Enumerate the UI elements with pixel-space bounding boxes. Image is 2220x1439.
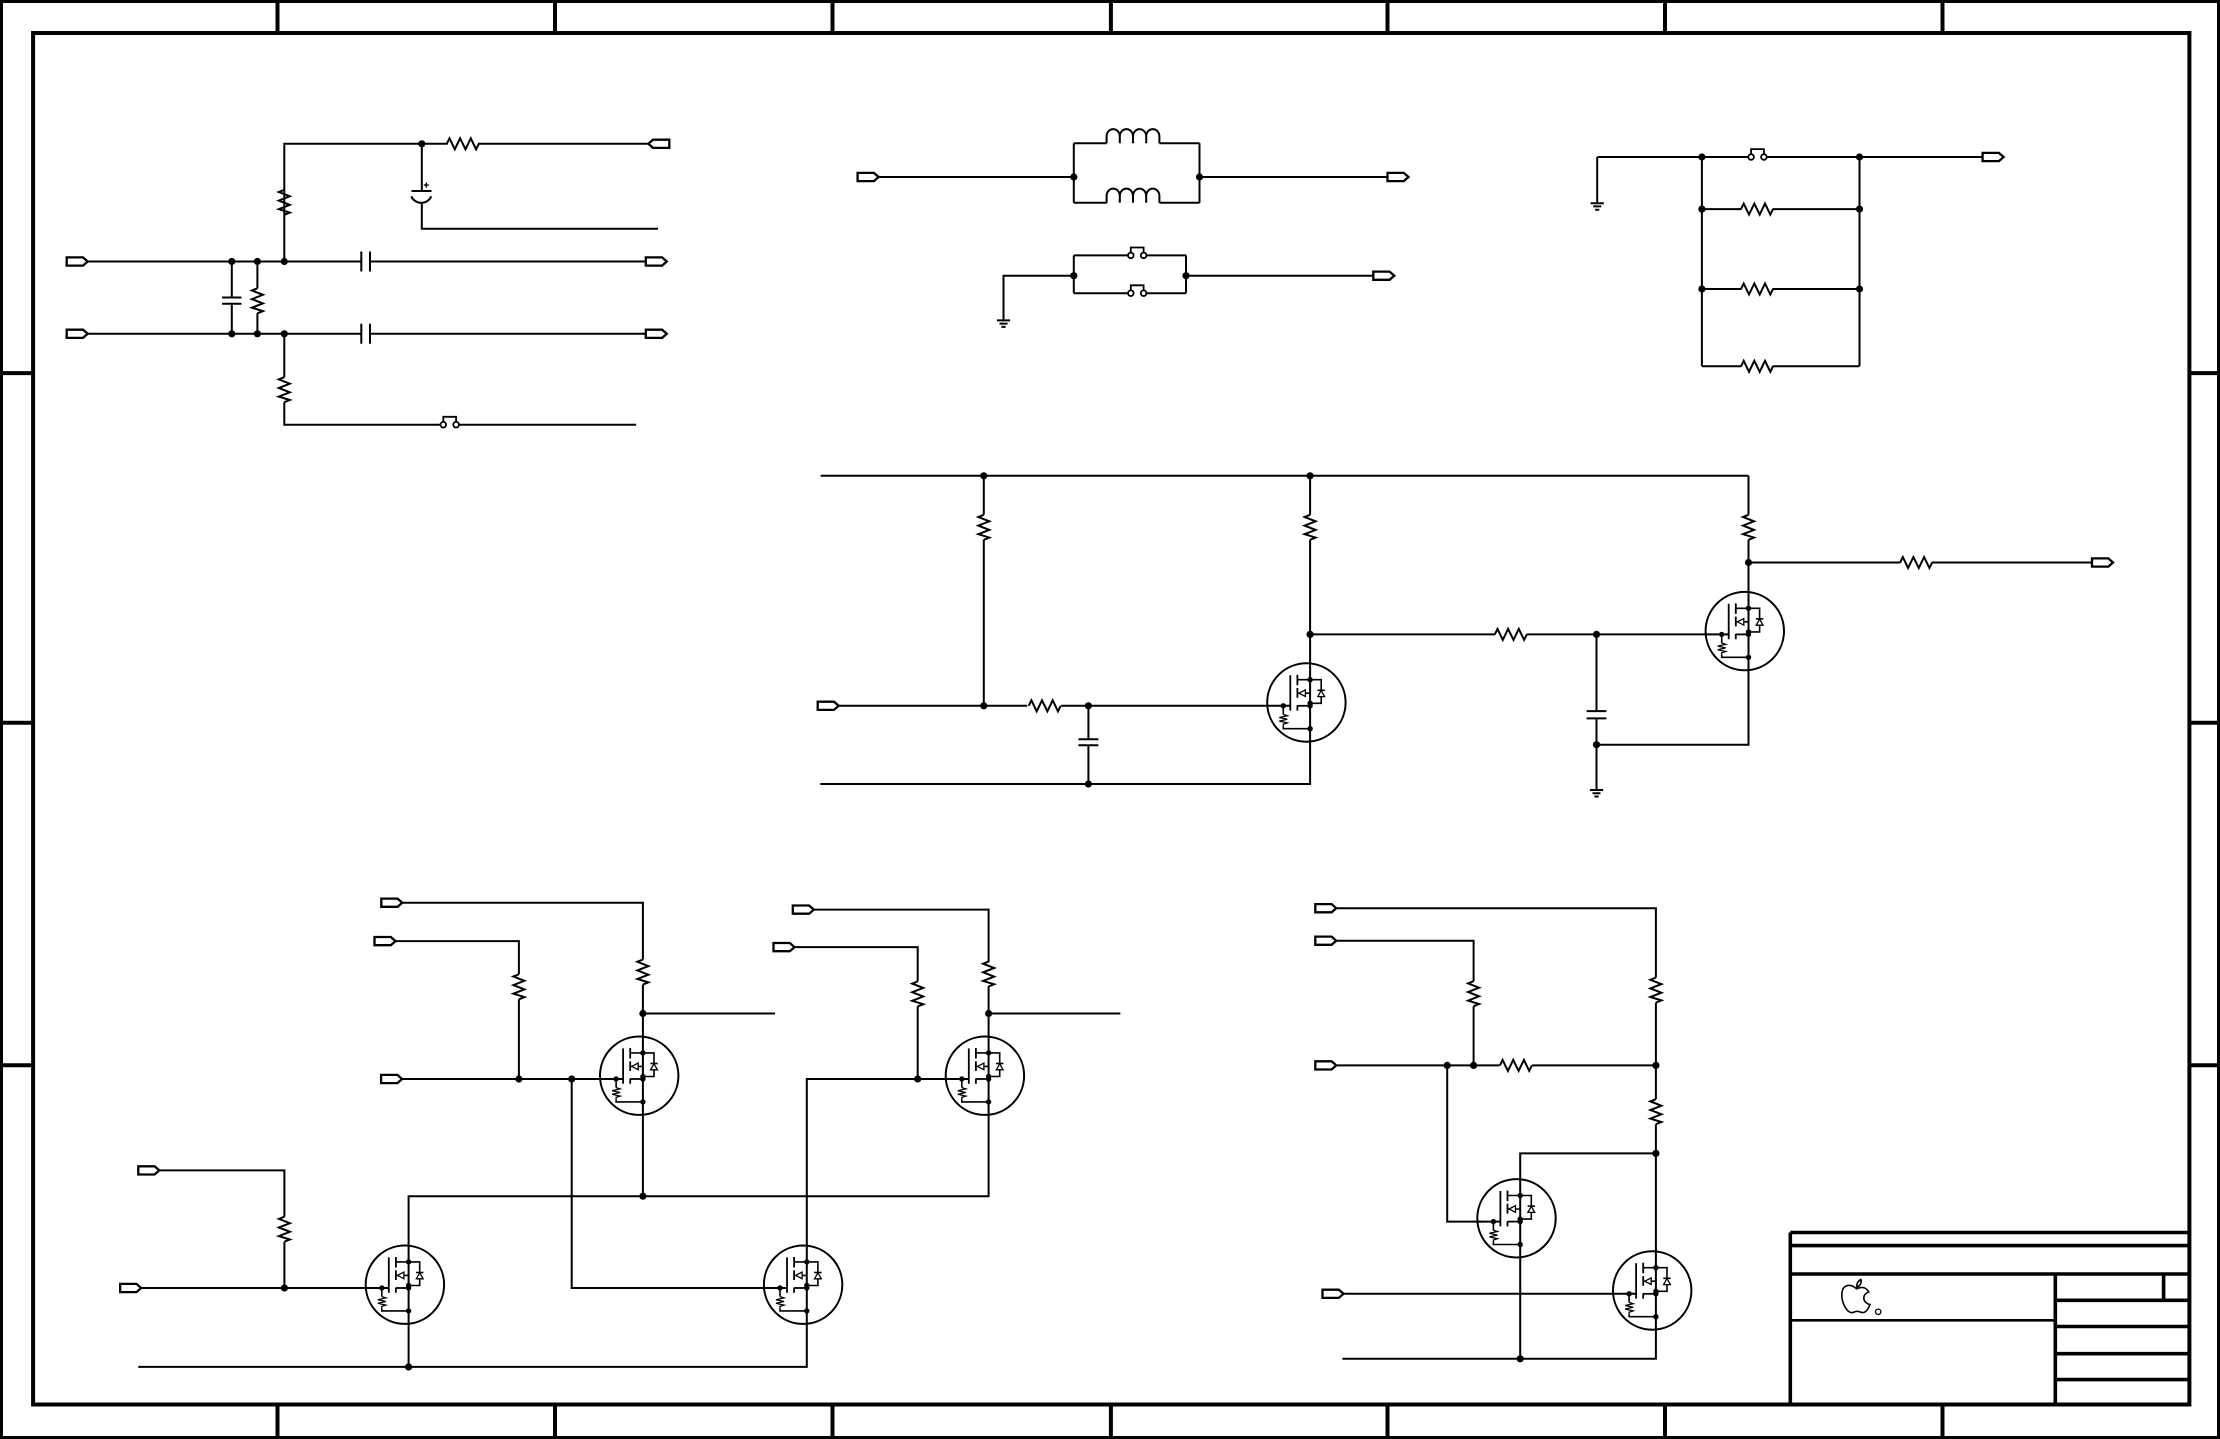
- connector OUT3: [646, 330, 667, 338]
- node C6 bottom: [1593, 741, 1600, 748]
- wire Q8 drain vertical: [1655, 1153, 1657, 1251]
- wire IN10 to R18: [159, 1170, 284, 1288]
- wire bottom-right rail: [1342, 1330, 1656, 1359]
- fuse F3: [1128, 285, 1146, 296]
- resistor R5: [1702, 208, 1860, 210]
- node line1 j2: [254, 258, 261, 265]
- wire C6 to Q2 source: [1597, 670, 1749, 745]
- wire Q3 source: [642, 1115, 644, 1196]
- connector IN4: [818, 702, 839, 710]
- node R21 right: [1652, 1062, 1659, 1069]
- wire C6 to ground: [1596, 745, 1598, 790]
- connector IN8 (Q5 drain supply): [793, 906, 814, 914]
- connector IN3 (top middle): [858, 173, 879, 181]
- wire gate line Q1: [839, 705, 1268, 707]
- wire Q4 source: [408, 1324, 410, 1367]
- node line2 j3: [281, 330, 288, 337]
- fuse F2: [1128, 248, 1146, 259]
- node Q4 gate j1: [281, 1284, 288, 1291]
- wire ground stub top right: [1596, 157, 1598, 203]
- connector OUT5: [1373, 272, 1394, 280]
- wire IN13 to R20: [1336, 941, 1473, 1066]
- connector IN11 (Q4 gate): [120, 1284, 141, 1292]
- ground G2: [1591, 203, 1604, 210]
- wire Q7 gate feed: [1447, 1065, 1481, 1221]
- wire middle top rail: [821, 475, 1749, 477]
- resistor R3: [256, 262, 258, 334]
- transistor Q7: [1477, 1179, 1555, 1257]
- capacitor C1 (polarized): [411, 144, 658, 229]
- ground G1: [997, 320, 1010, 327]
- wire left bus: [1701, 157, 1703, 366]
- wire to OUT4: [1200, 176, 1388, 178]
- connector OUT1 (left-pointing): [648, 140, 669, 148]
- capacitor C6: [1587, 634, 1607, 744]
- fuse F1: [441, 417, 459, 428]
- node line2 j2: [254, 330, 261, 337]
- wire Q3 gate line: [402, 1078, 600, 1080]
- node line1 j1: [228, 258, 235, 265]
- resistor R8 (pull-up 1): [983, 476, 985, 706]
- connector OUT2: [646, 257, 667, 265]
- node bus l1: [1698, 206, 1705, 213]
- capacitor C5: [1078, 706, 1098, 784]
- node bus tr: [1856, 153, 1863, 160]
- wire Q7 gate node line: [1336, 1064, 1656, 1066]
- wire drain link to Q7: [1520, 1153, 1656, 1179]
- node Q5 drain: [985, 1010, 992, 1017]
- node C6 top: [1593, 631, 1600, 638]
- wire to inductor box: [879, 176, 1074, 178]
- wire Q2 drain to OUT7: [1749, 562, 2093, 564]
- capacitor C3: [361, 324, 370, 344]
- node top-left rail junction: [418, 140, 425, 147]
- node bus l2: [1698, 285, 1705, 292]
- node Q3 gate j2: [568, 1075, 575, 1082]
- inductor L2: [1107, 189, 1160, 203]
- title block: [1790, 1233, 2189, 1405]
- wire Q3 drain stub: [643, 1013, 775, 1015]
- node bottom rail Q4 source: [405, 1363, 412, 1370]
- connector IN1: [67, 257, 88, 265]
- node R21 mid: [1470, 1062, 1477, 1069]
- wire drain node line: [1310, 633, 1706, 635]
- node rail v2: [1307, 472, 1314, 479]
- node bus r2: [1856, 285, 1863, 292]
- node rail v1: [980, 472, 987, 479]
- wire line2: [88, 333, 646, 335]
- node fuse box right: [1182, 272, 1189, 279]
- connector IN12 (Q8 drain supply): [1315, 904, 1336, 912]
- wire Q1 drain vertical: [1309, 634, 1311, 663]
- node gate line j1: [980, 702, 987, 709]
- connector IN6 (Q3 gate pull): [375, 937, 396, 945]
- wire IN6 to R15: [396, 941, 519, 1079]
- node shared line Q3 source: [639, 1193, 646, 1200]
- resistor R2: [279, 190, 290, 215]
- wire shared source line: [409, 1115, 989, 1246]
- resistor R19: [1650, 978, 1661, 1003]
- node line1 j3: [281, 258, 288, 265]
- node bottom rail cap: [1085, 780, 1092, 787]
- connector IN2: [67, 330, 88, 338]
- node R21 left: [1444, 1062, 1451, 1069]
- node inductor right: [1196, 173, 1203, 180]
- wire Q6 drain to Q5 gate: [807, 1079, 946, 1246]
- resistor R18: [279, 1217, 290, 1242]
- wire top-right rail: [1597, 156, 1982, 158]
- resistor R14: [637, 960, 648, 985]
- wire to OUT5: [1186, 275, 1373, 277]
- connector IN7 (Q3 gate): [381, 1075, 402, 1083]
- node gate line j2: [1085, 702, 1092, 709]
- resistor R6: [1702, 288, 1860, 290]
- wire Q4 gate feed: [572, 1079, 765, 1288]
- connector OUT4: [1388, 173, 1409, 181]
- wire Q5 drain stub: [989, 1013, 1121, 1015]
- node inductor left: [1070, 173, 1077, 180]
- resistor R12: [1495, 629, 1527, 640]
- connector IN5 (Q3 drain supply): [381, 899, 402, 907]
- wire ground to fuse box: [1004, 276, 1074, 321]
- wire right bus: [1859, 157, 1861, 366]
- capacitor C2: [361, 252, 370, 272]
- ground G3: [1590, 790, 1603, 797]
- inductor L1: [1107, 129, 1160, 143]
- connector IN13 (gate pull right): [1315, 937, 1336, 945]
- wire Q7 source: [1519, 1258, 1521, 1359]
- resistor R10 (pull-up 3): [1748, 476, 1750, 563]
- node Q3 drain: [639, 1010, 646, 1017]
- resistor R16: [983, 962, 994, 987]
- resistor R21: [1500, 1060, 1532, 1071]
- Apple logo: [1842, 1280, 1881, 1315]
- resistor R17: [912, 981, 923, 1006]
- connector OUT6: [1983, 153, 2004, 161]
- node Q3 gate j1: [515, 1075, 522, 1082]
- transistor Q2: [1706, 592, 1784, 670]
- connector IN10 (Q4 pull input): [138, 1166, 159, 1174]
- wire Q8 gate line: [1344, 1293, 1614, 1295]
- wire IN9 to R17: [795, 947, 918, 1079]
- connector IN15 (Q8 gate): [1323, 1290, 1344, 1298]
- inductor box outline: [1074, 143, 1200, 203]
- connector OUT7: [2092, 558, 2113, 566]
- connector IN9 (Q5 gate pull): [774, 943, 795, 951]
- wire line1: [88, 261, 646, 263]
- resistor R20: [1468, 981, 1479, 1006]
- wire middle bottom rail: [820, 742, 1310, 784]
- wire top-left top rail: [284, 144, 648, 262]
- wire IN5 to Q3 drain: [402, 903, 643, 1037]
- node Q1 drain: [1307, 631, 1314, 638]
- transistor Q1: [1267, 663, 1345, 741]
- resistor R1: [447, 138, 479, 149]
- fuse box outline: [1074, 255, 1186, 293]
- wire Q2 drain vertical: [1748, 563, 1750, 592]
- resistor R13: [1900, 557, 1932, 568]
- transistor Q5: [946, 1037, 1024, 1115]
- node bus tl: [1698, 153, 1705, 160]
- transistor Q6: [764, 1246, 842, 1324]
- capacitor C4: [222, 262, 241, 334]
- resistor R4: [284, 334, 636, 425]
- wire Q4 gate line: [141, 1287, 366, 1289]
- node bottom-right rail Q7 source: [1517, 1355, 1524, 1362]
- wire IN12 to R19: [1336, 908, 1656, 1065]
- transistor Q8: [1613, 1251, 1691, 1329]
- transistor Q4: [366, 1246, 444, 1324]
- node bus r1: [1856, 206, 1863, 213]
- wire IN8 to Q5 drain: [814, 910, 989, 1037]
- resistor R11: [1029, 700, 1061, 711]
- node line2 j1: [228, 330, 235, 337]
- node Q2 drain: [1745, 559, 1752, 566]
- resistor R15: [513, 974, 524, 999]
- node Q7/Q8 drain: [1652, 1150, 1659, 1157]
- wire bottom-left rail: [138, 1324, 807, 1367]
- resistor R9 (pull-up 2): [1309, 476, 1311, 635]
- fuse F4: [1748, 149, 1766, 160]
- connector IN14 (Q7 gate line): [1315, 1061, 1336, 1069]
- node Q5 gate j1: [914, 1075, 921, 1082]
- resistor R22 (drain series): [1655, 1065, 1657, 1153]
- node fuse box left: [1070, 272, 1077, 279]
- resistor R7: [1702, 365, 1860, 367]
- transistor Q3: [600, 1037, 678, 1115]
